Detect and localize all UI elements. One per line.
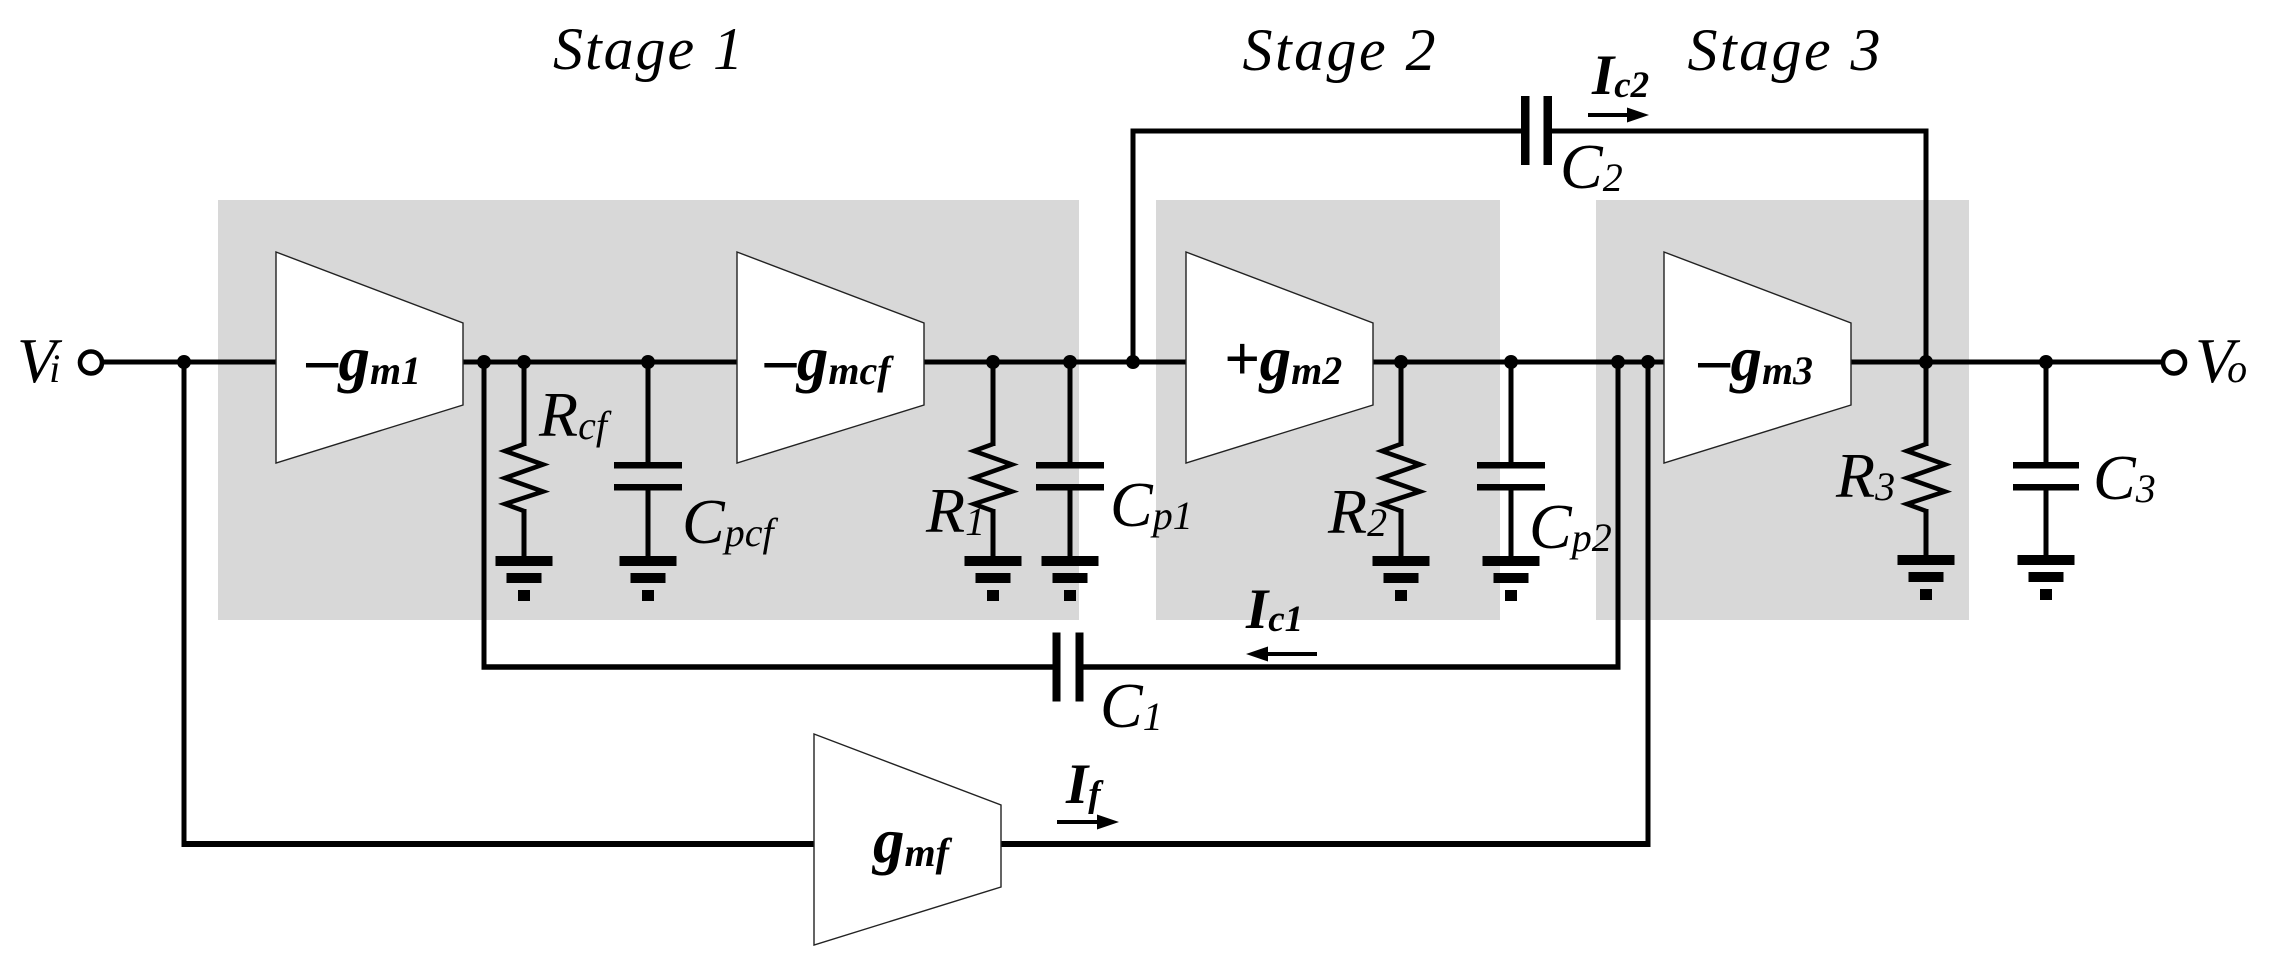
node 1 C1-tap junction bbox=[477, 355, 491, 369]
stage 1 region bbox=[218, 200, 1079, 620]
capacitor C2 bbox=[1521, 96, 1552, 165]
input terminal Vi bbox=[80, 352, 102, 374]
ground bbox=[965, 556, 1022, 601]
current arrow Ic2 bbox=[1588, 108, 1649, 123]
wire C1 right segment bbox=[1081, 664, 1621, 670]
resistor Rcf bbox=[505, 362, 543, 557]
wire Vi to gm1 input bbox=[102, 360, 276, 365]
node Vo C2-return R3 junction bbox=[1919, 355, 1933, 369]
wire gmf input feed bbox=[182, 841, 817, 847]
wire C1 right riser bbox=[1616, 362, 1621, 667]
node Vi gmf-tap junction bbox=[177, 355, 191, 369]
node 2 C2-tap junction bbox=[1126, 355, 1140, 369]
op-amp -gm1 bbox=[276, 252, 463, 463]
wire gmf output riser bbox=[1646, 362, 1651, 844]
op-amp gmf bbox=[814, 734, 1001, 945]
wire gmcf output node bbox=[922, 360, 1188, 365]
node 3 gmf-return junction bbox=[1641, 355, 1655, 369]
node Vo C3 junction bbox=[2039, 355, 2053, 369]
node 3 C1-return junction bbox=[1611, 355, 1625, 369]
wire C1 left segment bbox=[482, 664, 1055, 670]
wire gm1 output node bbox=[460, 360, 739, 365]
stage 2 region bbox=[1156, 200, 1500, 620]
wire C1 left riser bbox=[482, 362, 487, 667]
svg-text:Stage 2: Stage 2 bbox=[1243, 17, 1436, 83]
wire gmf output feed bbox=[998, 841, 1651, 847]
wire C2 left riser bbox=[1131, 129, 1136, 363]
ground bbox=[1042, 556, 1099, 601]
node 3 Cp2 junction bbox=[1504, 355, 1518, 369]
wire C2 right riser bbox=[1924, 129, 1929, 363]
output terminal Vo bbox=[2163, 352, 2185, 374]
wire R3 riser stub bbox=[1924, 362, 1929, 446]
svg-text:Stage 3: Stage 3 bbox=[1688, 17, 1881, 83]
node 1 Rcf junction bbox=[517, 355, 531, 369]
op-amp -gmcf bbox=[737, 252, 924, 463]
current arrow If bbox=[1057, 815, 1119, 830]
capacitor C3 bbox=[2013, 362, 2079, 557]
resistor R3 bbox=[1907, 444, 1945, 557]
capacitor C1 bbox=[1053, 633, 1084, 702]
ground bbox=[2018, 555, 2075, 600]
wire gm2 output node bbox=[1371, 360, 1666, 365]
svg-text:Stage 1: Stage 1 bbox=[553, 16, 743, 82]
ground bbox=[1898, 555, 1955, 600]
node 2 R1 junction bbox=[986, 355, 1000, 369]
ground bbox=[496, 556, 553, 601]
node 1 Cpcf junction bbox=[641, 355, 655, 369]
wire gm3 output to Vo bbox=[1849, 360, 2163, 365]
ground bbox=[1483, 556, 1540, 601]
wire gmf input riser bbox=[182, 362, 187, 844]
wire C2 left segment bbox=[1131, 129, 1523, 134]
op-amp +gm2 bbox=[1186, 252, 1373, 463]
capacitor Cp2 bbox=[1477, 362, 1545, 557]
capacitor Cp1 bbox=[1036, 362, 1104, 557]
ground bbox=[1373, 556, 1430, 601]
wire C2 right segment bbox=[1551, 129, 1929, 134]
ground bbox=[620, 556, 677, 601]
node 2 Cp1 junction bbox=[1063, 355, 1077, 369]
current arrow Ic1 bbox=[1246, 647, 1317, 662]
op-amp -gm3 bbox=[1664, 252, 1851, 463]
resistor R2 bbox=[1382, 362, 1420, 557]
capacitor Cpcf bbox=[614, 362, 682, 557]
stage 3 region bbox=[1596, 200, 1969, 620]
node 3 R2 junction bbox=[1394, 355, 1408, 369]
resistor R1 bbox=[974, 362, 1012, 557]
